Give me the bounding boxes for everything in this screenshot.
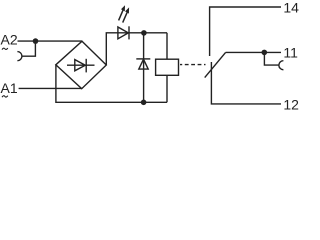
svg-text:11: 11 xyxy=(283,45,298,61)
svg-text:14: 14 xyxy=(283,0,299,15)
svg-text:12: 12 xyxy=(283,96,299,112)
svg-text:A1: A1 xyxy=(1,80,18,96)
svg-text:A2: A2 xyxy=(1,32,18,48)
